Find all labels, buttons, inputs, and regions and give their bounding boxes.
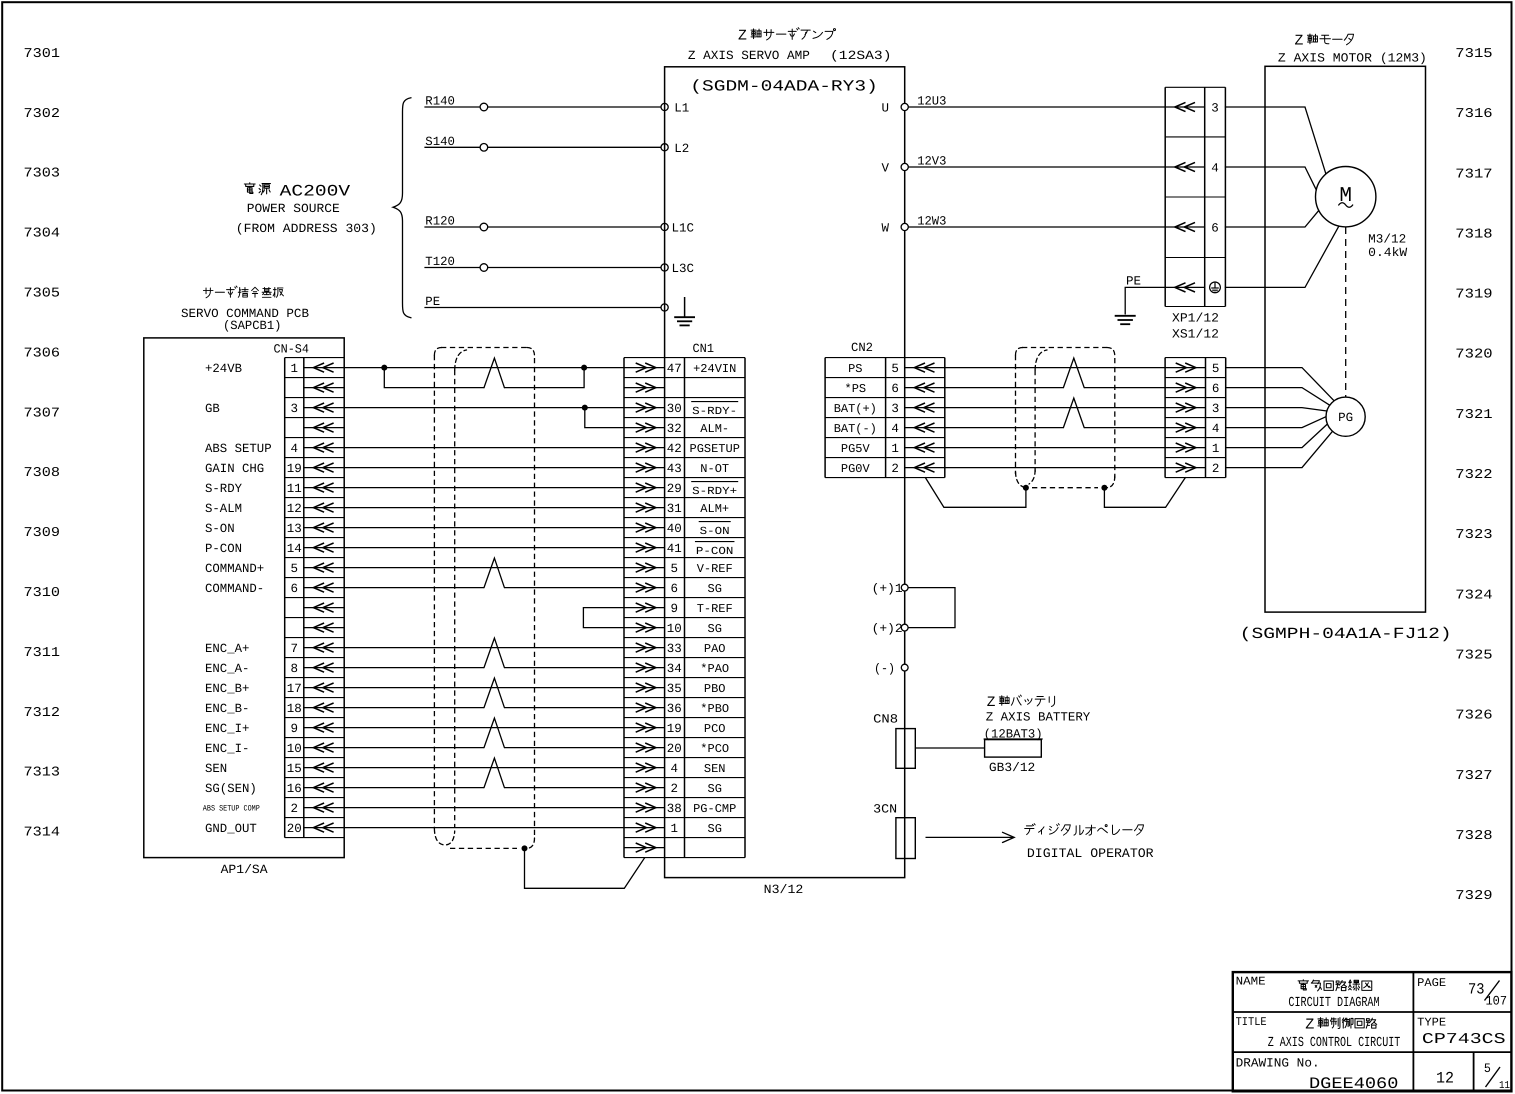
svg-text:7309: 7309 (24, 526, 61, 541)
svg-text:T-REF: T-REF (697, 602, 733, 616)
chevron arrow CN2 row 4 (905, 427, 945, 429)
svg-text:12: 12 (1436, 1070, 1454, 1088)
dashed shaft link between M and PG (1345, 227, 1347, 397)
svg-text:(12SA3): (12SA3) (830, 49, 892, 63)
svg-text:7329: 7329 (1455, 889, 1492, 904)
chevron arrow CN1 row 15 (624, 647, 665, 649)
svg-text:COMMAND-: COMMAND- (205, 582, 264, 596)
svg-text:(FROM ADDRESS 303): (FROM ADDRESS 303) (236, 222, 377, 236)
chevron arrow CN-S4 row 12 (304, 587, 344, 589)
svg-text:(SGDM-04ADA-RY3): (SGDM-04ADA-RY3) (690, 78, 878, 96)
jumper T-REF to SG (CN1 9-10) (583, 608, 624, 628)
chevron arrow CN1 row 17 (624, 687, 665, 689)
svg-text:SEN: SEN (205, 762, 227, 776)
svg-text:7304: 7304 (24, 227, 61, 242)
chevron arrow CN-S4 row 19 (304, 727, 344, 729)
+24VB distribution branch with junction dots (381, 365, 387, 371)
chevron arrow CN-S4 row 10 (304, 547, 344, 549)
svg-text:12: 12 (287, 502, 302, 516)
svg-text:SG: SG (708, 622, 722, 636)
svg-text:43: 43 (667, 462, 682, 476)
shield junction dot (522, 845, 528, 851)
svg-text:11: 11 (1499, 1080, 1510, 1092)
battery GB3/12 box (985, 740, 1042, 758)
svg-text:7322: 7322 (1455, 468, 1492, 483)
label: dengen AC200V power source (244, 183, 255, 194)
svg-text:1: 1 (1212, 442, 1220, 456)
svg-text:35: 35 (667, 682, 682, 696)
svg-text:36: 36 (667, 702, 682, 716)
svg-text:N-OT: N-OT (700, 462, 729, 476)
svg-text:3: 3 (1211, 102, 1219, 116)
Z axis motor box 12M3 (1265, 66, 1426, 612)
svg-text:L3C: L3C (672, 262, 695, 276)
svg-text:(SGMPH-04A1A-FJ12): (SGMPH-04A1A-FJ12) (1240, 625, 1452, 643)
svg-text:0.4kW: 0.4kW (1368, 246, 1408, 260)
svg-text:PG5V: PG5V (841, 442, 871, 456)
svg-text:4: 4 (891, 422, 899, 436)
svg-text:7303: 7303 (24, 167, 61, 182)
svg-text:7323: 7323 (1455, 528, 1492, 543)
svg-text:4: 4 (1211, 162, 1219, 176)
chevron arrow CN-S4 row 9 (304, 527, 344, 529)
svg-text:1: 1 (290, 362, 298, 376)
pin circle R140 at amp edge (661, 103, 668, 110)
svg-text:ALM+: ALM+ (700, 502, 729, 516)
svg-text:7317: 7317 (1455, 167, 1492, 182)
chevron arrow CN1 row 23 (624, 807, 665, 809)
svg-text:47: 47 (667, 362, 682, 376)
wire CN8 to battery (915, 747, 984, 749)
svg-text:Z AXIS SERVO AMP: Z AXIS SERVO AMP (688, 49, 810, 63)
svg-text:9: 9 (671, 602, 679, 616)
svg-text:ABS SETUP COMP: ABS SETUP COMP (203, 805, 260, 814)
pin circle R120 at amp edge (661, 223, 668, 230)
wires XS1 to encoder PG (1226, 368, 1334, 401)
chevron arrow CN2 row 6 (905, 467, 945, 469)
svg-text:R120: R120 (425, 215, 455, 229)
chevron arrow CN2 row 5 (905, 447, 945, 449)
chevron arrow CN-S4 row 7 (304, 487, 344, 489)
chevron arrow CN1 row 14 (624, 627, 665, 629)
svg-text:Z AXIS BATTERY: Z AXIS BATTERY (986, 710, 1091, 724)
servo command PCB titles (203, 288, 213, 298)
chevron arrow CN-S4 row 3 (304, 407, 344, 409)
svg-text:16: 16 (287, 782, 302, 796)
svg-text:CP743CS: CP743CS (1422, 1031, 1506, 1048)
chevron arrow CN1 row 22 (624, 787, 665, 789)
brace for power source wires (393, 98, 411, 318)
svg-text:SG: SG (708, 822, 722, 836)
svg-text:BAT(+): BAT(+) (834, 402, 877, 416)
svg-text:P-CON: P-CON (205, 542, 242, 556)
svg-text:Z: Z (1295, 34, 1304, 50)
svg-text:SEN: SEN (704, 762, 726, 776)
svg-text:4: 4 (671, 762, 679, 776)
svg-text:ENC_I-: ENC_I- (205, 742, 249, 756)
svg-text:34: 34 (667, 662, 682, 676)
svg-text:ALM-: ALM- (700, 422, 729, 436)
svg-text:13: 13 (287, 522, 302, 536)
svg-text:3: 3 (891, 402, 899, 416)
terminal circle on wire R140 (480, 103, 488, 111)
XP1 protective earth pin (1165, 286, 1205, 288)
svg-text:3: 3 (1212, 402, 1220, 416)
svg-text:5: 5 (1484, 1061, 1491, 1076)
svg-text:L1C: L1C (672, 222, 695, 236)
svg-text:19: 19 (287, 462, 302, 476)
svg-text:ENC_A+: ENC_A+ (205, 642, 249, 656)
svg-text:7308: 7308 (24, 466, 61, 481)
svg-text:U: U (881, 102, 889, 116)
chevron arrow CN1 row 13 (624, 607, 665, 609)
svg-text:L1: L1 (674, 102, 689, 116)
svg-text:7315: 7315 (1455, 47, 1492, 62)
svg-text:14: 14 (287, 542, 302, 556)
chevron arrow CN-S4 row 18 (304, 707, 344, 709)
svg-text:DRAWING No.: DRAWING No. (1236, 1056, 1320, 1070)
svg-text:CN-S4: CN-S4 (274, 343, 310, 357)
svg-text:107: 107 (1486, 994, 1508, 1009)
connector CN1 pin table (623, 358, 625, 858)
servo command PCB box AP1/SA (144, 338, 344, 858)
svg-text:1: 1 (671, 822, 679, 836)
pin circle PE at amp edge (661, 304, 668, 311)
wires CN2 to XS1 encoder cable (945, 367, 1165, 369)
svg-text:SG(SEN): SG(SEN) (205, 782, 257, 796)
chevron arrow CN1 row 25 (624, 847, 665, 849)
jumper wire between (+)1 and (+)2 (908, 588, 955, 628)
svg-text:DIGITAL OPERATOR: DIGITAL OPERATOR (1027, 846, 1154, 861)
svg-text:2: 2 (671, 782, 679, 796)
svg-text:ENC_I+: ENC_I+ (205, 722, 249, 736)
svg-text:PAGE: PAGE (1417, 976, 1446, 990)
cable shield between CN-S4 and CN1 (dashed) (433, 355, 435, 829)
svg-text:SG: SG (708, 782, 722, 796)
svg-text:7319: 7319 (1455, 288, 1492, 303)
svg-text:PE: PE (425, 295, 440, 309)
chevron arrow CN-S4 row 24 (304, 827, 344, 829)
wire R140 to servo amp (424, 106, 664, 108)
svg-text:7311: 7311 (24, 646, 61, 661)
chevron arrow CN-S4 row 17 (304, 687, 344, 689)
svg-text:12W3: 12W3 (917, 215, 946, 229)
cable shield between CN2 and XS1 (dashed) (1015, 355, 1017, 474)
shield drain wire left (925, 478, 1026, 508)
chevron arrow CN-S4 row 13 (304, 607, 344, 609)
chevron arrow CN1 row 21 (624, 767, 665, 769)
svg-text:GB: GB (205, 402, 220, 416)
svg-text:S-RDY-: S-RDY- (692, 406, 737, 418)
svg-text:18: 18 (287, 702, 302, 716)
chevron arrow CN2 row 2 (905, 387, 945, 389)
svg-text:20: 20 (287, 822, 302, 836)
svg-text:CN8: CN8 (873, 713, 898, 727)
svg-text:+24VIN: +24VIN (693, 362, 736, 376)
svg-text:7324: 7324 (1455, 588, 1492, 603)
wire R120 to servo amp (424, 226, 664, 228)
chevron arrow CN-S4 row 20 (304, 747, 344, 749)
chevron arrow CN1 row 4 (624, 427, 665, 429)
svg-text:M3/12: M3/12 (1368, 233, 1406, 247)
svg-text:20: 20 (667, 742, 682, 756)
svg-text:TYPE: TYPE (1417, 1015, 1446, 1029)
chevron arrow CN-S4 row 16 (304, 667, 344, 669)
svg-text:V-REF: V-REF (697, 562, 733, 576)
svg-text:Z AXIS CONTROL CIRCUIT: Z AXIS CONTROL CIRCUIT (1268, 1036, 1401, 1051)
svg-text:CN1: CN1 (693, 342, 715, 356)
twisted pair symbols on CN-S4/CN1 cable (484, 358, 504, 388)
wire 12W3 to motor connector (905, 226, 1165, 228)
chevron arrow CN-S4 row 23 (304, 807, 344, 809)
svg-text:6: 6 (891, 382, 899, 396)
svg-text:R140: R140 (425, 95, 455, 109)
svg-text:1: 1 (891, 442, 899, 456)
chevron arrow CN1 row 3 (624, 407, 665, 409)
pin circle S140 at amp edge (661, 144, 668, 151)
terminal circle on wire T120 (480, 264, 488, 272)
svg-text:5: 5 (1212, 362, 1220, 376)
svg-text:7301: 7301 (24, 47, 61, 62)
svg-text:2: 2 (290, 802, 298, 816)
chevron arrow CN-S4 row 8 (304, 507, 344, 509)
svg-text:29: 29 (667, 482, 682, 496)
svg-text:PG-CMP: PG-CMP (693, 802, 736, 816)
svg-text:17: 17 (287, 682, 302, 696)
svg-text:ABS SETUP: ABS SETUP (205, 442, 272, 456)
chevron arrow CN2 row 1 (905, 367, 945, 369)
shield junction dots (1023, 485, 1029, 491)
svg-text:PGSETUP: PGSETUP (690, 442, 740, 456)
chevron arrow CN-S4 row 1 (304, 367, 344, 369)
connector CN8 box (896, 729, 915, 769)
connector 3CN box (896, 818, 915, 859)
chevron arrow CN1 row 16 (624, 667, 665, 669)
svg-text:ENC_B-: ENC_B- (205, 702, 249, 716)
chevron arrow CN2 row 3 (905, 407, 945, 409)
shield drain wire to CN1 (525, 848, 645, 888)
svg-text:6: 6 (671, 582, 679, 596)
wire S140 to servo amp (424, 146, 664, 148)
svg-text:7318: 7318 (1455, 227, 1492, 242)
chevron arrow CN-S4 row 22 (304, 787, 344, 789)
svg-text:5: 5 (290, 562, 298, 576)
chevron arrow CN-S4 row 14 (304, 627, 344, 629)
pin circle T120 at amp edge (661, 264, 668, 271)
svg-text:40: 40 (667, 522, 682, 536)
chevron arrow CN-S4 row 11 (304, 567, 344, 569)
svg-text:NAME: NAME (1236, 975, 1266, 989)
wire 12V3 to motor connector (905, 166, 1165, 168)
svg-text:TITLE: TITLE (1236, 1015, 1267, 1029)
svg-text:8: 8 (290, 662, 298, 676)
svg-text:*PAO: *PAO (700, 662, 729, 676)
chevron arrow CN1 row 9 (624, 527, 665, 529)
svg-text:S-RDY+: S-RDY+ (692, 486, 737, 498)
svg-text:PG0V: PG0V (841, 462, 871, 476)
svg-text:7302: 7302 (24, 107, 61, 122)
svg-text:BAT(-): BAT(-) (834, 422, 877, 436)
svg-text:L2: L2 (674, 142, 689, 156)
connector CN2 pin table (824, 358, 826, 478)
svg-text:S-ALM: S-ALM (205, 502, 242, 516)
svg-text:12U3: 12U3 (917, 95, 946, 109)
svg-text:4: 4 (290, 442, 298, 456)
chevron arrow CN1 row 12 (624, 587, 665, 589)
chevron arrow CN1 row 18 (624, 707, 665, 709)
svg-text:19: 19 (667, 722, 682, 736)
svg-text:CN2: CN2 (851, 341, 873, 355)
svg-text:S-ON: S-ON (205, 522, 235, 536)
title block (1233, 972, 1512, 1091)
svg-text:Z: Z (738, 28, 747, 44)
svg-text:7307: 7307 (24, 406, 61, 421)
svg-text:PCO: PCO (704, 722, 726, 736)
twisted pair symbol PS/*PS (1063, 358, 1084, 388)
svg-text:12V3: 12V3 (917, 155, 946, 169)
svg-text:COMMAND+: COMMAND+ (205, 562, 264, 576)
svg-text:POWER SOURCE: POWER SOURCE (247, 202, 340, 216)
svg-text:PG: PG (1338, 411, 1353, 425)
chevron arrow CN1 row 8 (624, 507, 665, 509)
svg-text:10: 10 (287, 742, 302, 756)
terminal circle on wire S140 (480, 144, 488, 152)
GB branch to CN1 pin 32 with junction dot (582, 405, 588, 411)
ground symbol at motor connector (1115, 315, 1136, 317)
svg-text:32: 32 (667, 422, 682, 436)
svg-text:7306: 7306 (24, 346, 61, 361)
svg-text:V: V (881, 162, 889, 176)
chevron arrow CN1 row 2 (624, 387, 665, 389)
svg-text:15: 15 (287, 762, 302, 776)
shield drain wire right (1104, 478, 1185, 508)
svg-text:PE: PE (1126, 275, 1141, 289)
svg-text:10: 10 (667, 622, 682, 636)
svg-text:N3/12: N3/12 (764, 883, 804, 897)
svg-text:42: 42 (667, 442, 682, 456)
svg-text:2: 2 (1212, 462, 1220, 476)
chevron arrow CN1 row 20 (624, 747, 665, 749)
svg-text:P-CON: P-CON (696, 546, 734, 558)
chevron arrow CN-S4 row 2 (304, 387, 344, 389)
wires CN-S4 to CN1 (344, 367, 624, 369)
svg-text:6: 6 (290, 582, 298, 596)
encoder connector XS1/12 table (1164, 358, 1166, 478)
svg-text:7326: 7326 (1455, 709, 1492, 724)
chevron arrow CN1 row 7 (624, 487, 665, 489)
svg-text:7325: 7325 (1455, 648, 1492, 663)
svg-text:3CN: 3CN (873, 802, 897, 816)
svg-text:DGEE4060: DGEE4060 (1309, 1075, 1398, 1093)
wire 12U3 to motor connector (905, 106, 1165, 108)
svg-text:7312: 7312 (24, 706, 61, 721)
svg-text:38: 38 (667, 802, 682, 816)
svg-text:7313: 7313 (24, 766, 61, 781)
svg-text:7327: 7327 (1455, 769, 1492, 784)
svg-text:*PBO: *PBO (700, 702, 729, 716)
svg-text:4: 4 (1212, 422, 1220, 436)
chevron arrow CN1 row 24 (624, 827, 665, 829)
chevron arrow CN1 row 10 (624, 547, 665, 549)
svg-text:Z: Z (987, 695, 996, 711)
svg-text:7320: 7320 (1455, 348, 1492, 363)
twisted pair symbol BAT(+)/BAT(-) (1063, 398, 1084, 428)
chevron arrow CN1 row 19 (624, 727, 665, 729)
svg-text:AC200V: AC200V (280, 182, 351, 200)
svg-text:PAO: PAO (704, 642, 726, 656)
wire 3CN to digital operator with arrow (926, 836, 1015, 838)
svg-text:XP1/12: XP1/12 (1172, 312, 1219, 326)
svg-text:T120: T120 (425, 255, 455, 269)
svg-text:30: 30 (667, 402, 682, 416)
wire PE to servo amp (424, 307, 664, 309)
svg-text:CIRCUIT DIAGRAM: CIRCUIT DIAGRAM (1288, 996, 1379, 1011)
svg-text:(+)1: (+)1 (872, 582, 903, 596)
svg-text:PBO: PBO (704, 682, 726, 696)
svg-text:7305: 7305 (24, 286, 61, 301)
svg-text:7321: 7321 (1455, 408, 1492, 423)
digital operator labels (1025, 824, 1035, 835)
svg-text:73: 73 (1468, 981, 1485, 999)
svg-text:7310: 7310 (24, 586, 61, 601)
svg-text:GB3/12: GB3/12 (989, 761, 1035, 775)
chassis ground symbol near PE pin (684, 297, 686, 317)
chevron arrow CN1 row 6 (624, 467, 665, 469)
svg-text:W: W (881, 222, 889, 236)
terminal circle on wire R120 (480, 223, 488, 231)
svg-text:Z: Z (1305, 1015, 1314, 1033)
svg-text:7: 7 (290, 642, 298, 656)
svg-text:GAIN CHG: GAIN CHG (205, 462, 264, 476)
svg-text:PS: PS (848, 362, 862, 376)
chevron arrow CN-S4 row 21 (304, 767, 344, 769)
chevron arrow CN1 row 5 (624, 447, 665, 449)
wires XP1 to motor M (1225, 107, 1326, 174)
svg-text:ENC_B+: ENC_B+ (205, 682, 249, 696)
svg-text:5: 5 (671, 562, 679, 576)
svg-text:6: 6 (1211, 222, 1219, 236)
chevron arrow CN1 row 1 (624, 367, 665, 369)
svg-text:7314: 7314 (24, 826, 61, 841)
svg-text:41: 41 (667, 542, 682, 556)
svg-text:*PCO: *PCO (700, 742, 729, 756)
svg-text:(SAPCB1): (SAPCB1) (223, 319, 282, 333)
motor power connector XP1/12 table (1164, 87, 1166, 306)
wire T120 to servo amp (424, 267, 664, 269)
chevron arrow CN-S4 row 5 (304, 447, 344, 449)
svg-text:7316: 7316 (1455, 107, 1492, 122)
svg-text:*PS: *PS (845, 382, 867, 396)
svg-text:AP1/SA: AP1/SA (221, 863, 269, 877)
svg-text:3: 3 (290, 402, 298, 416)
svg-text:11: 11 (287, 482, 302, 496)
svg-text:ENC_A-: ENC_A- (205, 662, 249, 676)
svg-text:S140: S140 (425, 135, 455, 149)
svg-text:9: 9 (290, 722, 298, 736)
servo amp box U1 (SGDM-04ADA-RY3) (665, 67, 905, 878)
svg-text:+24VB: +24VB (205, 362, 242, 376)
svg-text:S-ON: S-ON (700, 526, 730, 538)
svg-text:31: 31 (667, 502, 682, 516)
connector CN-S4 pin table (284, 358, 286, 838)
svg-text:6: 6 (1212, 382, 1220, 396)
svg-text:7328: 7328 (1455, 829, 1492, 844)
svg-text:SG: SG (708, 582, 722, 596)
svg-text:2: 2 (891, 462, 899, 476)
encoder circle PG (1326, 397, 1365, 436)
chevron arrow CN-S4 row 6 (304, 467, 344, 469)
motor circle M (1316, 167, 1376, 227)
